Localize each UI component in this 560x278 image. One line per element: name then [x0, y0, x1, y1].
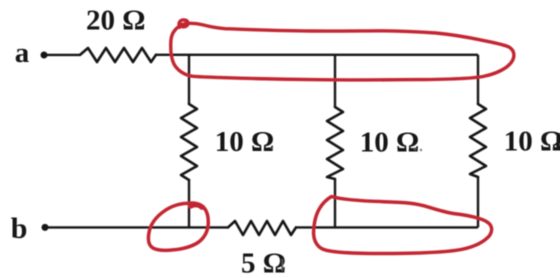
resistor R3 (10 ohm, vertical, middle)	[327, 107, 343, 179]
svg-text:10 Ω: 10 Ω	[215, 126, 274, 158]
wire: R5 to bottom right bus	[296, 226, 478, 228]
svg-text:b: b	[11, 212, 28, 245]
annotation: red loop around node at R2/bottom wire junction	[148, 203, 208, 250]
resistor R2 (10 ohm, vertical, left)	[181, 104, 197, 180]
terminal a	[15, 37, 48, 69]
wire: R2 to bottom bus	[188, 180, 190, 227]
value label: 5 ohm	[241, 247, 286, 278]
wire: terminal b to node	[48, 226, 228, 228]
annotation: red loop around bottom right bus node	[314, 197, 492, 254]
resistor R1 (20 ohm, horizontal)	[80, 48, 156, 62]
wire: R4 to bottom bus	[477, 177, 479, 227]
resistor R4 (10 ohm, vertical, right)	[470, 104, 486, 177]
annotation: red loop around top bus node	[171, 20, 514, 80]
wire: top bus to R3	[334, 55, 336, 107]
value label: 10 ohm (middle)	[360, 126, 422, 158]
svg-text:20 Ω: 20 Ω	[86, 5, 145, 37]
wire: top bus node	[156, 54, 478, 56]
terminal b	[11, 212, 49, 245]
svg-text:10 Ω: 10 Ω	[360, 126, 419, 158]
wire: terminal a to R1	[47, 54, 80, 56]
wire: top bus to R4	[477, 55, 479, 104]
value label: 10 ohm (left)	[215, 126, 274, 158]
resistor R5 (5 ohm, horizontal)	[228, 221, 296, 235]
svg-text:10 Ω: 10 Ω	[504, 125, 560, 157]
wire: top bus to R2	[188, 55, 190, 104]
svg-text:a: a	[15, 37, 30, 69]
wire: R3 to bottom bus	[334, 179, 336, 227]
value label: 10 ohm (right, clipped at edge)	[504, 125, 560, 157]
svg-text:5 Ω: 5 Ω	[241, 247, 286, 278]
